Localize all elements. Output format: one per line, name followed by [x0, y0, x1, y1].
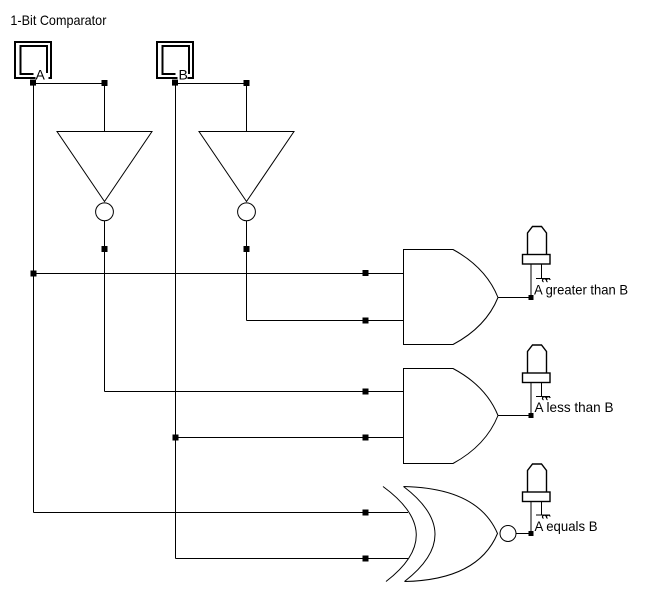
junction NOT-B output [244, 246, 250, 252]
wire B to XNOR bottom input [176, 558, 409, 560]
wire A to NOT-A input [34, 83, 105, 85]
XNOR gate U5 (A equals B) [383, 487, 516, 582]
LED D2 [523, 345, 551, 413]
junction AND2 output [529, 413, 534, 418]
junction B branch to AND2 [173, 435, 179, 441]
junction AND2 input pin 1 [363, 389, 369, 395]
wire B vertical bus [175, 84, 177, 559]
input switch A [15, 42, 51, 80]
AND gate U4 (A less than B) [404, 369, 499, 464]
svg-text:1-Bit Comparator: 1-Bit Comparator [10, 12, 106, 28]
wire NOT-B output down [246, 249, 248, 321]
junction AND1 input pin 1 [363, 270, 369, 276]
LED D3 [523, 464, 551, 531]
junction XNOR input pin 2 [363, 556, 369, 562]
svg-text:A less than B: A less than B [535, 399, 614, 415]
wire A to XNOR top input [34, 512, 409, 514]
wire NOT-A input stub [104, 84, 106, 132]
junction XNOR input pin 1 [363, 510, 369, 516]
svg-text:A: A [36, 67, 46, 83]
svg-text:A equals B: A equals B [535, 518, 598, 534]
node A terminal [30, 80, 36, 86]
wire NOT-A output down [104, 249, 106, 392]
junction A branch to AND1 [31, 271, 37, 277]
inverter U1 (NOT A) [57, 132, 152, 221]
svg-text:A greater than B: A greater than B [534, 282, 628, 298]
wire NOT-B to AND1 bottom input [247, 320, 404, 322]
ground D3 [536, 515, 550, 518]
inverter U2 (NOT B) [199, 132, 294, 221]
junction AND1 input pin 2 [363, 318, 369, 324]
ground D2 [536, 397, 550, 400]
node B terminal [172, 80, 178, 86]
junction AND1 output [529, 295, 534, 300]
junction XNOR output [529, 531, 534, 536]
wire AND2 output [498, 415, 529, 417]
junction NOT-A output [102, 246, 108, 252]
wire NOT-B output stub [246, 221, 248, 249]
junction NOT-B input pin [244, 80, 250, 86]
wire XNOR output [516, 533, 529, 535]
wire A vertical bus [33, 84, 35, 513]
AND gate U3 (A greater than B) [404, 250, 499, 345]
wire A to AND1 top input [34, 273, 404, 275]
junction AND2 input pin 2 [363, 435, 369, 441]
wire NOT-A to AND2 top input [105, 391, 404, 393]
wire B to NOT-B input [176, 83, 247, 85]
wire NOT-A output stub [104, 221, 106, 249]
junction NOT-A input pin [102, 80, 108, 86]
input switch B [157, 42, 193, 80]
wire NOT-B input stub [246, 84, 248, 132]
svg-text:B: B [179, 67, 188, 83]
ground D1 [536, 279, 550, 282]
wire AND1 output [498, 297, 529, 299]
LED D1 [523, 227, 551, 296]
wire B to AND2 bottom input [176, 437, 404, 439]
